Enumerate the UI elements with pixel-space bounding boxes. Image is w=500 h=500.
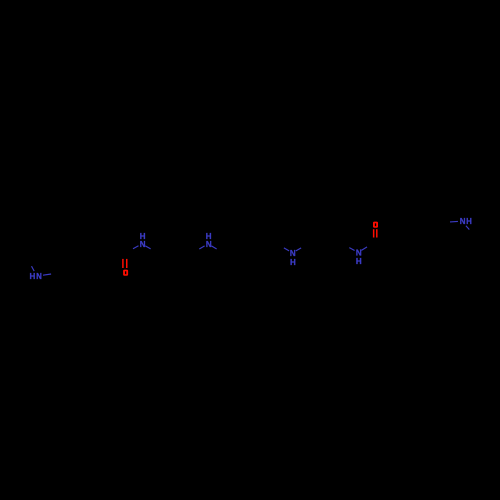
bond N1-Cm1 (nitrogen half) [145,246,150,249]
carbonyl CR=O1 double bond line B (oxygen half red) [376,229,378,237]
wire bond Cm4-Cm5 [225,244,242,253]
atom O1 label [373,222,378,228]
wire bond C3-CL [105,253,125,259]
bond Cm7-N3 (carbon half black) [276,244,284,248]
wire bond Cm8-Cm9 [309,244,326,253]
bond N3-Cm8 (carbon half black) [301,244,309,248]
bond CL-N1 (nitrogen half) [133,246,139,249]
svg-text:H: H [290,258,296,267]
svg-text:N: N [36,272,42,281]
wire bond C2-C3 [84,259,105,266]
bond Cm10-N4 (nitrogen half) [349,248,354,251]
bond N0-C1 (carbon half, black) [51,272,63,274]
svg-text:H: H [356,257,362,266]
bond N2-Cm4 (nitrogen half) [211,246,216,249]
carbonyl CR=O1 double bond carbon halves (black) [374,238,377,242]
svg-text:N: N [206,240,212,249]
bond Cprev-N5 (nitrogen half) [450,220,458,223]
wire bond Cm6-Cm7 [258,244,276,254]
bond Cm3-N2 (carbon half black) [191,249,199,253]
carbonyl CL=O0 double bond line B (oxygen half red) [126,259,128,268]
svg-text:N: N [356,248,362,257]
wire bond C1-C2 [63,266,84,272]
bond N5-M1 methyl (nitrogen half) [466,226,470,230]
wire bond Ca-Cb [392,230,408,237]
bond N2-Cm4 (carbon half black) [217,249,225,253]
bond N3-Cm8 (nitrogen half) [296,248,301,251]
wire bond CR-Ca [375,237,392,242]
svg-text:H: H [30,272,36,281]
wire bond Cc-Cprev [424,223,439,226]
bond CL-N1 (carbon half black) [125,249,133,253]
bond Cm7-N3 (nitrogen half) [284,248,289,251]
atom O0 label [123,270,128,276]
carbonyl CL=O0 double bond line A (oxygen half red) [122,259,124,268]
bond N0-M0 methyl (carbon half, black) [26,261,32,266]
svg-text:N: N [140,240,146,249]
wire bond Cm1-Cm2 [158,244,175,253]
bond Cprev-N5 (carbon half black) [439,221,450,224]
bond N1-Cm1 (carbon half black) [151,249,159,254]
carbonyl CL=O0 double bond carbon halves (black) [123,253,127,259]
carbonyl CR=O1 double bond line A (oxygen half red) [373,229,375,237]
bond N0-C1 (nitrogen half) [43,274,51,275]
bond Cm10-N4 (carbon half black) [342,244,349,248]
wire bond Cm9-Cm10 [326,244,343,253]
bond N4-CR (nitrogen half) [361,247,367,251]
wire bond Cm2-Cm3 [175,244,192,253]
bond N0-M0 (nitrogen half) [32,266,35,271]
svg-text:N: N [290,249,296,258]
wire bond Cb-Cc [408,226,424,230]
bond N4-CR (carbon half black) [367,242,375,247]
svg-text:N: N [460,217,466,226]
bond Cm3-N2 (nitrogen half) [199,246,204,249]
wire bond Cm5-Cm6 [241,244,258,253]
svg-text:H: H [466,217,472,226]
bond N5-M1 (carbon half black) [469,230,475,235]
